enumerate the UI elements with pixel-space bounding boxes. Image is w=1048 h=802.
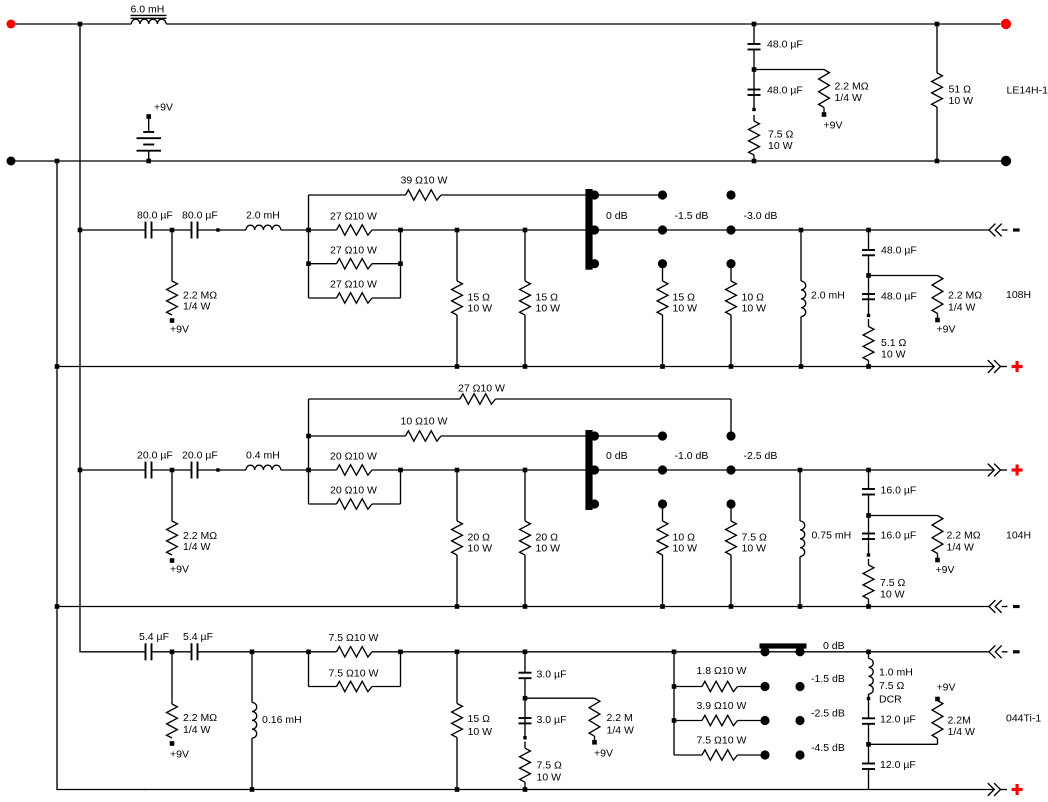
node ch2 return/L3 bbox=[799, 364, 804, 369]
wire ch4 rail seg3 bbox=[198, 651, 309, 653]
wire ch3 rail seg2 bbox=[152, 469, 192, 471]
wire ch2 rail seg1 bbox=[80, 229, 146, 231]
svg-text:+9V: +9V bbox=[936, 564, 955, 576]
resistor R22 10 ohm 10 W bbox=[657, 504, 697, 607]
svg-text:0.4 mH: 0.4 mH bbox=[246, 450, 280, 462]
svg-text:+9V: +9V bbox=[170, 564, 189, 576]
svg-text:0 dB: 0 dB bbox=[823, 640, 845, 652]
resistor R34 7.5 ohm 10 W bbox=[674, 735, 761, 761]
svg-text:20 Ω10 W: 20 Ω10 W bbox=[330, 485, 377, 497]
node ch3 Z junction bbox=[866, 513, 871, 518]
wire ch2 bias tap wire bbox=[869, 275, 938, 277]
capacitor C14 3.0 uF bbox=[519, 714, 567, 726]
node R15 +9V bbox=[170, 558, 175, 563]
output terminal ch1 - (black) bbox=[1001, 156, 1011, 166]
capacitor C1 48.0 uF bbox=[748, 39, 803, 51]
node ch4 block left bbox=[306, 650, 311, 655]
node ch4 cap junction 2 bbox=[523, 696, 528, 701]
selector S1 (ch2 attenuator) bar bbox=[585, 189, 592, 270]
capacitor C2 48.0 uF bbox=[748, 85, 803, 97]
node R13 +9V bbox=[935, 318, 940, 323]
svg-text:12.0 µF: 12.0 µF bbox=[880, 714, 916, 726]
S1 contact r1c3 bbox=[726, 190, 735, 199]
node battery +9V bbox=[146, 114, 151, 119]
svg-text:10 W: 10 W bbox=[768, 140, 793, 152]
capacitor C6 48.0 uF bbox=[862, 291, 917, 303]
resistor R19 20 ohm 10 W bbox=[309, 485, 401, 510]
svg-text:10 W: 10 W bbox=[468, 543, 493, 555]
node R26 +9V bbox=[170, 741, 175, 746]
capacitor C3 80.0 uF bbox=[137, 210, 173, 239]
svg-text:2.2 MΩ: 2.2 MΩ bbox=[948, 290, 982, 302]
resistor R28 7.5 ohm 10 W bbox=[309, 668, 401, 692]
svg-text:3.9 Ω10 W: 3.9 Ω10 W bbox=[697, 700, 747, 712]
svg-text:20.0 µF: 20.0 µF bbox=[137, 450, 173, 462]
wire ch3 rail seg5 bbox=[401, 469, 995, 471]
node ch4 rail/cap chain bbox=[523, 650, 528, 655]
svg-text:48.0 µF: 48.0 µF bbox=[881, 245, 917, 257]
node ch4 block right bbox=[398, 650, 403, 655]
resistor R11 15 ohm 10 W bbox=[657, 264, 697, 367]
svg-text:51 Ω: 51 Ω bbox=[949, 84, 972, 96]
svg-text:27 Ω10 W: 27 Ω10 W bbox=[330, 279, 377, 291]
wire ch2 Z chain top lead bbox=[868, 230, 870, 250]
svg-text:7.5 Ω10 W: 7.5 Ω10 W bbox=[329, 632, 379, 644]
wire ch4 parallel-block right bus bbox=[400, 652, 402, 687]
wire ch4 attenuator bus bbox=[673, 652, 675, 755]
resistor R26 2.2 Mohm bias bbox=[167, 652, 218, 738]
resistor R8 39 ohm 10 W bbox=[309, 175, 586, 201]
output port ch3 - (to 104H) bbox=[989, 600, 1020, 613]
node R30 +9V bbox=[592, 740, 597, 745]
node ch4 return/chain bbox=[523, 787, 528, 792]
S1 contact r3c2 bbox=[658, 259, 667, 268]
node ch2 Z junction bbox=[866, 273, 871, 278]
svg-text:10 W: 10 W bbox=[468, 303, 493, 315]
node ch4 C14/R31 bbox=[523, 736, 526, 739]
svg-text:2.2 MΩ: 2.2 MΩ bbox=[183, 712, 217, 724]
wire S2 top row link bbox=[595, 435, 663, 437]
resistor R6 27 ohm 10 W bbox=[309, 245, 401, 269]
wire ch1 bottom rail bbox=[16, 160, 1002, 162]
resistor R12 10 ohm 10 W bbox=[726, 264, 766, 367]
wire ch3 Z chain top lead bbox=[868, 470, 870, 489]
resistor R27 7.5 ohm 10 W bbox=[309, 632, 401, 657]
node ch2 block left mid bbox=[306, 228, 311, 233]
resistor R5 27 ohm 10 W bbox=[309, 211, 401, 236]
resistor R20 20 ohm 10 W bbox=[452, 470, 492, 607]
wire vertical bus B (- feed) bbox=[57, 161, 146, 790]
svg-text:0.75 mH: 0.75 mH bbox=[812, 530, 852, 542]
output port ch4 - (to 044Ti-1) bbox=[989, 645, 1020, 658]
node att bus r1 bbox=[672, 684, 677, 689]
S2 contact r1c1 bbox=[590, 431, 599, 440]
svg-text:2.2 MΩ: 2.2 MΩ bbox=[947, 530, 981, 542]
svg-text:48.0 µF: 48.0 µF bbox=[881, 291, 917, 303]
wire ch1 shunt chain top lead bbox=[753, 24, 755, 44]
inductor L5 0.75 mH (shunt) bbox=[800, 470, 851, 607]
S3 contact 5 bbox=[760, 716, 769, 725]
node ch2 rail/L3 bbox=[799, 228, 804, 233]
svg-text:LE14H-1: LE14H-1 bbox=[1007, 85, 1048, 97]
svg-text:-2.5 dB: -2.5 dB bbox=[744, 450, 778, 462]
node ch1 bottom/R3 bbox=[935, 159, 940, 164]
wire ch3 parallel-block left bus bbox=[308, 399, 310, 504]
wire top rail right bbox=[166, 23, 1000, 25]
output port ch2 - (to 108H) bbox=[989, 224, 1020, 237]
svg-text:7.5 Ω10 W: 7.5 Ω10 W bbox=[329, 668, 379, 680]
S3 contact 6 bbox=[795, 716, 804, 725]
svg-text:10 Ω10 W: 10 Ω10 W bbox=[401, 416, 448, 428]
svg-text:80.0 µF: 80.0 µF bbox=[137, 210, 173, 222]
svg-text:DCR: DCR bbox=[879, 694, 902, 706]
wire ch4 Z chain mid lead bbox=[868, 699, 870, 719]
node ch3 rail/L5 bbox=[798, 468, 803, 473]
node ch2 block right low bbox=[398, 261, 403, 266]
wire ch4 Z chain lower lead bbox=[868, 724, 870, 764]
node ch1 rail/cap chain bbox=[752, 22, 757, 27]
output port ch3 + (to 104H) bbox=[988, 464, 1023, 477]
svg-text:3.0 µF: 3.0 µF bbox=[537, 669, 567, 681]
svg-text:1/4 W: 1/4 W bbox=[948, 302, 976, 314]
node ch2 return/R10 bbox=[523, 364, 528, 369]
resistor R9 15 ohm 10 W bbox=[452, 230, 492, 367]
wire ch4 Z chain bottom lead bbox=[868, 769, 870, 790]
node ch1 bottom/chain bbox=[752, 159, 757, 164]
S2 contact r3c3 bbox=[726, 499, 735, 508]
S1 contact r2c3 bbox=[726, 225, 735, 234]
S1 contact r3c3 bbox=[726, 259, 735, 268]
S2 contact r3c2 bbox=[658, 499, 667, 508]
svg-text:27 Ω10 W: 27 Ω10 W bbox=[330, 245, 377, 257]
node ch1 top/R3 bbox=[935, 22, 940, 27]
wire ch4 rail seg4 bbox=[401, 651, 989, 653]
svg-text:5.4 µF: 5.4 µF bbox=[139, 631, 169, 643]
node R35 +9V bbox=[935, 697, 940, 702]
svg-text:20 Ω10 W: 20 Ω10 W bbox=[330, 451, 377, 463]
node vbusA/ch2 rail bbox=[78, 228, 83, 233]
wire ch2 rail seg5 bbox=[401, 229, 989, 231]
wire ch4 parallel-block left bus bbox=[308, 652, 310, 687]
wire ch1 bias tap wire bbox=[754, 69, 824, 71]
node ch3 return/R22 bbox=[660, 604, 665, 609]
node att bus r2 bbox=[672, 718, 677, 723]
node vbusB/ch3 return bbox=[55, 604, 60, 609]
node ch3 rail/Z chain bbox=[866, 468, 871, 473]
svg-text:1.8 Ω10 W: 1.8 Ω10 W bbox=[697, 665, 747, 677]
S1 contact r2c1 bbox=[590, 225, 599, 234]
wire ch3 bias tap wire bbox=[869, 515, 938, 517]
node ch2 rail/R9 bbox=[455, 228, 460, 233]
svg-text:10 W: 10 W bbox=[537, 772, 562, 784]
svg-text:10 W: 10 W bbox=[881, 349, 906, 361]
selector S2 (ch3 attenuator) bar bbox=[585, 430, 592, 510]
inductor L2 2.0 mH (series) bbox=[246, 210, 281, 231]
wire vertical bus A (+ feed) bbox=[80, 24, 146, 652]
node ch2 block right mid bbox=[398, 228, 403, 233]
node ch4 rail/L6 bbox=[250, 650, 255, 655]
svg-text:+9V: +9V bbox=[170, 749, 189, 761]
capacitor C10 16.0 uF bbox=[862, 530, 916, 542]
wire ch3 27ohm drop bbox=[730, 399, 732, 436]
node ch3 return/L5 bbox=[798, 604, 803, 609]
S3 contact 3 bbox=[760, 682, 769, 691]
resistor R16 27 ohm 10 W bbox=[309, 383, 732, 405]
node ch4 rail/L7 bbox=[866, 650, 871, 655]
svg-text:7.5 Ω10 W: 7.5 Ω10 W bbox=[697, 735, 747, 747]
wire ch3 parallel-block right bus bbox=[400, 470, 402, 504]
svg-text:1/4 W: 1/4 W bbox=[607, 725, 635, 737]
svg-text:1/4 W: 1/4 W bbox=[835, 92, 863, 104]
output terminal ch1 + (red) bbox=[1001, 19, 1011, 29]
node ch3 return/chain bbox=[866, 604, 871, 609]
input terminal - (black) bbox=[7, 157, 16, 166]
node ch2 return/R9 bbox=[455, 364, 460, 369]
svg-text:7.5 Ω: 7.5 Ω bbox=[537, 760, 563, 772]
svg-text:-3.0 dB: -3.0 dB bbox=[744, 210, 778, 222]
S3 contact 8 bbox=[795, 750, 804, 759]
node ch3 return/R20 bbox=[455, 604, 460, 609]
svg-text:-2.5 dB: -2.5 dB bbox=[811, 708, 845, 720]
svg-text:6.0 mH: 6.0 mH bbox=[131, 4, 165, 16]
node battery/ch1-bottom bbox=[146, 159, 151, 164]
svg-text:1/4 W: 1/4 W bbox=[183, 724, 211, 736]
node ch2 C6/R14 bbox=[867, 314, 870, 317]
node ch3 block left mid bbox=[306, 468, 311, 473]
wire ch4 return rail bbox=[144, 789, 994, 791]
capacitor C13 3.0 uF bbox=[519, 669, 567, 681]
node ch2 return/R11 bbox=[660, 364, 665, 369]
node ch4 return/L6 bbox=[250, 787, 255, 792]
wire ch3 rail seg3 bbox=[198, 469, 247, 471]
S3 contact 4 bbox=[795, 682, 804, 691]
svg-text:-1.5 dB: -1.5 dB bbox=[675, 210, 709, 222]
capacitor C9 16.0 uF bbox=[862, 485, 916, 497]
S2 contact r1c3 bbox=[726, 431, 735, 440]
svg-text:27 Ω10 W: 27 Ω10 W bbox=[330, 211, 377, 223]
svg-text:2.2 M: 2.2 M bbox=[607, 712, 633, 724]
node R24 +9V bbox=[935, 558, 940, 563]
svg-text:20.0 µF: 20.0 µF bbox=[182, 450, 218, 462]
svg-text:0 dB: 0 dB bbox=[606, 210, 628, 222]
S3 contact 1 bbox=[760, 647, 769, 656]
svg-text:7.5 Ω: 7.5 Ω bbox=[880, 577, 906, 589]
output port ch2 + (to 108H) bbox=[988, 360, 1023, 373]
node ch4 cap junction bbox=[170, 650, 175, 655]
S2 contact r3c1 bbox=[590, 499, 599, 508]
resistor R18 20 ohm 10 W bbox=[309, 451, 401, 476]
resistor R2 7.5 ohm 10 W bbox=[749, 115, 794, 161]
node ch2 block left low bbox=[306, 261, 311, 266]
node ch2 rail/R10 bbox=[523, 228, 528, 233]
capacitor C15 12.0 uF bbox=[862, 714, 916, 726]
svg-text:10 W: 10 W bbox=[880, 589, 905, 601]
node ch2 return/R12 bbox=[729, 364, 734, 369]
resistor R24 2.2 Mohm bias bbox=[932, 516, 981, 559]
node vbusA/ch3 rail bbox=[78, 468, 83, 473]
node ch1-bottom/vbusB bbox=[55, 159, 60, 164]
S2 contact r2c2 bbox=[658, 465, 667, 474]
wire ch3 return rail bbox=[57, 606, 989, 608]
wire ch3 Z chain mid lead bbox=[868, 495, 870, 556]
resistor R3 51 ohm 10 W bbox=[932, 24, 973, 161]
node ch1 C2/R2 bbox=[752, 108, 755, 111]
node R1 +9V bbox=[822, 112, 827, 117]
resistor R14 5.1 ohm 10 W bbox=[863, 319, 906, 367]
svg-text:10 W: 10 W bbox=[673, 543, 698, 555]
resistor R15 2.2 Mohm bias bbox=[167, 470, 218, 555]
wire ch3 rail seg1 bbox=[80, 469, 146, 471]
wire ch2 rail seg2 bbox=[152, 229, 192, 231]
inductor L1 6.0 mH (series, with core bars) bbox=[131, 4, 167, 25]
capacitor C8 20.0 uF bbox=[182, 450, 218, 479]
svg-text:-1.5 dB: -1.5 dB bbox=[811, 673, 845, 685]
svg-text:-4.5 dB: -4.5 dB bbox=[811, 742, 845, 754]
svg-text:1.0 mH: 1.0 mH bbox=[879, 667, 913, 679]
svg-text:12.0 µF: 12.0 µF bbox=[880, 759, 916, 771]
svg-text:-1.0 dB: -1.0 dB bbox=[675, 450, 709, 462]
inductor L3 2.0 mH (shunt) bbox=[801, 230, 845, 367]
svg-text:10 W: 10 W bbox=[949, 95, 974, 107]
node top-rail/vbusA bbox=[78, 22, 83, 27]
svg-text:2.2 MΩ: 2.2 MΩ bbox=[835, 81, 869, 93]
svg-text:5.1 Ω: 5.1 Ω bbox=[881, 337, 907, 349]
resistor R32 1.8 ohm 10 W bbox=[674, 665, 761, 692]
svg-text:10 W: 10 W bbox=[536, 543, 561, 555]
node ch2 return/chain bbox=[866, 364, 871, 369]
node R4 +9V bbox=[170, 318, 175, 323]
wire ch2 parallel-block left bus bbox=[308, 195, 310, 298]
svg-text:1/4 W: 1/4 W bbox=[183, 541, 211, 553]
svg-text:1/4 W: 1/4 W bbox=[947, 542, 975, 554]
node ch3 block left 10ohm bbox=[306, 434, 311, 439]
wire ch2 rail seg4 bbox=[281, 229, 309, 231]
inductor L6 0.16 mH (shunt) bbox=[252, 652, 302, 790]
node ch2 marker bbox=[216, 228, 219, 231]
node ch3 block right mid bbox=[398, 468, 403, 473]
node vbusB/ch2 return bbox=[55, 364, 60, 369]
capacitor C5 48.0 uF bbox=[862, 245, 917, 257]
selector S3 (ch4 attenuator) bar bbox=[760, 643, 807, 648]
wire S1 top row link bbox=[595, 194, 663, 196]
svg-text:48.0 µF: 48.0 µF bbox=[767, 85, 803, 97]
wire ch4 rail seg2 bbox=[152, 651, 192, 653]
node ch4 L7/C15 bbox=[867, 697, 870, 700]
S3 contact 7 bbox=[760, 750, 769, 759]
svg-text:108H: 108H bbox=[1006, 289, 1031, 301]
node ch3 cap junction bbox=[170, 468, 175, 473]
S2 contact r1c2 bbox=[658, 431, 667, 440]
wire ch2 rail seg3 bbox=[198, 229, 247, 231]
svg-text:+9V: +9V bbox=[824, 120, 843, 132]
resistor R17 10 ohm 10 W bbox=[309, 416, 595, 442]
svg-text:5.4 µF: 5.4 µF bbox=[183, 631, 213, 643]
resistor R21 20 ohm 10 W bbox=[520, 470, 560, 607]
resistor R29 15 ohm 10 W bbox=[452, 652, 492, 790]
svg-text:104H: 104H bbox=[1006, 530, 1031, 542]
node ch4 Z junction bbox=[866, 742, 871, 747]
svg-text:10 W: 10 W bbox=[673, 303, 698, 315]
node ch3 return/R21 bbox=[523, 604, 528, 609]
svg-text:10 W: 10 W bbox=[468, 726, 493, 738]
svg-text:2.2M: 2.2M bbox=[948, 715, 971, 727]
svg-text:1/4 W: 1/4 W bbox=[948, 726, 976, 738]
svg-text:7.5 Ω: 7.5 Ω bbox=[768, 129, 794, 141]
resistor R30 2.2 Mohm bias bbox=[589, 698, 634, 740]
inductor L7 1.0 mH 7.5 ohm DCR (shunt) bbox=[869, 652, 913, 706]
svg-text:2.0 mH: 2.0 mH bbox=[246, 210, 280, 222]
node ch3 C10/R25 bbox=[867, 553, 870, 556]
wire ch2 parallel-block right bus bbox=[400, 230, 402, 298]
resistor R13 2.2 Mohm bias bbox=[932, 276, 982, 319]
svg-text:16.0 µF: 16.0 µF bbox=[881, 485, 917, 497]
node ch1 cap junction bbox=[752, 67, 757, 72]
svg-text:044Ti-1: 044Ti-1 bbox=[1006, 713, 1041, 725]
S1 contact r1c2 bbox=[658, 190, 667, 199]
wire ch3 rail seg4 bbox=[281, 469, 309, 471]
svg-text:27 Ω10 W: 27 Ω10 W bbox=[458, 383, 505, 395]
wire ch2 Z chain mid lead bbox=[868, 255, 870, 315]
svg-text:+9V: +9V bbox=[594, 748, 613, 760]
svg-text:48.0 µF: 48.0 µF bbox=[767, 39, 803, 51]
svg-text:0 dB: 0 dB bbox=[606, 450, 628, 462]
capacitor C4 80.0 uF bbox=[182, 210, 218, 239]
wire ch4 cap chain mid lead bbox=[524, 678, 526, 738]
resistor R33 3.9 ohm 10 W bbox=[674, 700, 761, 726]
input terminal + (red) bbox=[7, 20, 16, 29]
svg-text:16.0 µF: 16.0 µF bbox=[881, 530, 917, 542]
wire ch4 cap chain top lead bbox=[524, 652, 526, 673]
output port ch4 + (to 044Ti-1) bbox=[988, 783, 1023, 796]
resistor R4 2.2 Mohm bias bbox=[167, 230, 218, 315]
svg-text:+9V: +9V bbox=[170, 324, 189, 336]
svg-text:15 Ω: 15 Ω bbox=[468, 713, 491, 725]
capacitor C16 12.0 uF bbox=[862, 759, 916, 771]
node ch3 return/R23 bbox=[729, 604, 734, 609]
svg-text:+9V: +9V bbox=[154, 102, 173, 114]
S2 contact r2c3 bbox=[726, 465, 735, 474]
S3 contact 2 bbox=[795, 647, 804, 656]
resistor R7 27 ohm 10 W bbox=[309, 279, 401, 304]
node ch3 marker bbox=[216, 468, 219, 471]
wire ch1 cap chain mid lead bbox=[753, 50, 755, 110]
svg-text:39 Ω10 W: 39 Ω10 W bbox=[401, 175, 448, 187]
S1 contact r2c2 bbox=[658, 225, 667, 234]
resistor R35 2.2 Mohm bias bbox=[932, 701, 975, 745]
svg-text:1/4 W: 1/4 W bbox=[183, 301, 211, 313]
svg-text:+9V: +9V bbox=[937, 682, 956, 694]
node ch3 rail/R20 bbox=[455, 468, 460, 473]
S2 contact r2c1 bbox=[590, 465, 599, 474]
svg-text:0.16 mH: 0.16 mH bbox=[262, 714, 302, 726]
resistor R23 7.5 ohm 10 W bbox=[726, 504, 767, 607]
svg-text:80.0 µF: 80.0 µF bbox=[182, 210, 218, 222]
capacitor C12 5.4 uF bbox=[183, 631, 213, 660]
svg-text:10 W: 10 W bbox=[742, 543, 767, 555]
node ch2 cap junction bbox=[170, 228, 175, 233]
wire ch4 bias tap wire bbox=[525, 697, 595, 699]
node ch3 rail/R21 bbox=[523, 468, 528, 473]
resistor R25 7.5 ohm 10 W bbox=[863, 559, 905, 607]
svg-text:3.0 µF: 3.0 µF bbox=[537, 714, 567, 726]
node ch2 rail/Z chain bbox=[866, 228, 871, 233]
wire top rail left bbox=[16, 23, 132, 25]
node ch4 rail/R29 bbox=[455, 650, 460, 655]
inductor L4 0.4 mH (series) bbox=[246, 450, 281, 471]
svg-text:10 W: 10 W bbox=[536, 303, 561, 315]
S1 contact r1c1 bbox=[590, 190, 599, 199]
node ch4 return/R29 bbox=[455, 787, 460, 792]
